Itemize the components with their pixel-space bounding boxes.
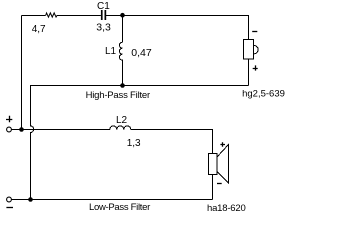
svg-text:C1: C1	[97, 1, 110, 12]
svg-text:3,3: 3,3	[96, 21, 111, 33]
svg-text:0,47: 0,47	[131, 47, 152, 59]
svg-text:ha18-620: ha18-620	[207, 203, 246, 214]
svg-text:Low-Pass Filter: Low-Pass Filter	[89, 202, 150, 213]
svg-text:4,7: 4,7	[32, 24, 46, 35]
svg-text:hg2,5-639: hg2,5-639	[242, 89, 285, 100]
svg-text:High-Pass Filter: High-Pass Filter	[86, 90, 150, 101]
svg-text:L1: L1	[105, 46, 117, 57]
svg-text:L2: L2	[116, 115, 128, 126]
svg-text:1,3: 1,3	[127, 138, 141, 149]
